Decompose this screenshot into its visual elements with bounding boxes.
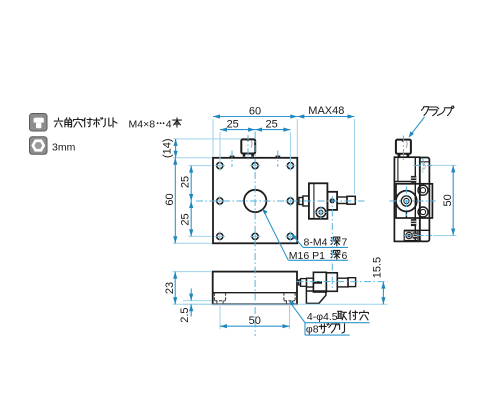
M4 hole front r0c1: [250, 160, 260, 170]
dimension 50 side: [442, 165, 455, 235]
side view M4 screw right top: [418, 185, 428, 195]
micrometer front: body screw: [315, 206, 328, 219]
top edge screw tab left: [230, 156, 235, 158]
leader 8-M4 depth7: [291, 234, 348, 249]
side view right column: [420, 158, 430, 242]
M4 hole front r2c1: [250, 231, 260, 241]
centerline micrometer lock: [331, 196, 333, 290]
svg-text:M16 P1: M16 P1: [289, 250, 325, 262]
svg-text:M4×8: M4×8: [129, 118, 156, 130]
micrometer front: spindle collar: [303, 196, 309, 206]
micrometer front: lock block: [327, 192, 337, 210]
svg-text:φ8: φ8: [306, 324, 319, 336]
dimension 23: [164, 272, 178, 305]
side view bottom notch and screw: [404, 230, 429, 240]
M4 hole front r1c2: [285, 196, 295, 206]
svg-text:15.5: 15.5: [372, 257, 384, 278]
dimension 50 bottom: [220, 315, 290, 328]
bottom micrometer shaft: [337, 278, 348, 287]
dimension 60 top: [213, 106, 297, 119]
leader M16 P1 depth6: [262, 209, 348, 262]
side view center pad: [396, 184, 432, 218]
bottom micrometer thimble: [326, 273, 337, 292]
bottom micrometer end knob: [348, 278, 356, 287]
svg-text:23: 23: [164, 282, 176, 294]
centerline side knob: [402, 136, 404, 162]
svg-text:4: 4: [166, 118, 172, 130]
bottom view base rect: [213, 272, 297, 305]
micrometer front: end knob: [347, 196, 355, 204]
bottom view step line: [213, 292, 297, 294]
extension lines 2.5 dim: [183, 301, 388, 305]
svg-text:3mm: 3mm: [52, 142, 76, 154]
svg-text:25: 25: [180, 176, 192, 188]
bottom micrometer collar: [307, 278, 314, 287]
dimension (14): [162, 138, 178, 158]
centerline vertical main axis: [254, 132, 256, 337]
dimension 25 top right: [255, 119, 290, 132]
svg-text:50: 50: [442, 194, 454, 206]
M4 hole front r0c2: [285, 160, 295, 170]
svg-text:60: 60: [249, 106, 261, 118]
svg-text:(14): (14): [162, 138, 174, 158]
side view main body: [394, 157, 419, 241]
clamp label katakana: [421, 106, 453, 116]
icon hex key: [30, 137, 48, 155]
dimension 15.5: [372, 257, 386, 304]
side view clamp screw top hatched: [411, 176, 416, 183]
clamp label leader: [409, 117, 425, 138]
top edge screw tab right: [276, 156, 281, 158]
extension lines 23 dim: [173, 272, 213, 305]
dimension 25 left upper: [180, 166, 194, 237]
bottom micrometer barrel: [313, 272, 326, 292]
extension lines 50 bottom: [220, 306, 290, 329]
clamp knob front: [241, 139, 255, 157]
centerline side top hole: [414, 158, 433, 173]
leader 4-phi4.5 mounting holes: [289, 300, 370, 336]
svg-text:25: 25: [265, 119, 277, 131]
centerline side bottom hole: [403, 235, 432, 237]
side view column top segment: [420, 161, 430, 163]
svg-text:7: 7: [342, 237, 348, 249]
side view inner vertical: [414, 157, 416, 241]
svg-text:25: 25: [227, 119, 239, 131]
centerline side boss vertical: [405, 187, 407, 217]
centerline top screw right: [277, 151, 279, 168]
dimension MAX48: [297, 105, 354, 118]
bottom micrometer bracket foot: [306, 287, 326, 304]
M4 hole front r0c0: [215, 160, 225, 170]
svg-text:4-φ4.5: 4-φ4.5: [307, 311, 338, 323]
centerline front knob: [247, 135, 249, 161]
centerline top screw left: [231, 151, 233, 168]
svg-text:2.5: 2.5: [179, 308, 191, 323]
dimension 60 left: [164, 158, 177, 244]
extension lines left dims: [173, 139, 241, 243]
bottom micrometer spindle: [299, 280, 301, 285]
hidden counterbore left: [214, 293, 225, 305]
legend label: hex socket bolt M4x8 x4: [54, 118, 181, 131]
svg-text:8-M4: 8-M4: [304, 237, 328, 249]
side view boss circles: [396, 191, 417, 218]
svg-text:25: 25: [180, 213, 192, 225]
M4 hole front r2c2: [285, 231, 295, 241]
icon hex-socket bolt: [30, 114, 48, 132]
side view clamp knob: [396, 139, 411, 157]
bottom micrometer spindle2: [301, 279, 307, 287]
svg-text:6: 6: [342, 250, 348, 262]
micrometer front: spindle tip: [299, 198, 303, 205]
centerline bottom micrometer axis: [297, 281, 388, 283]
M4 hole front r2c0: [215, 231, 225, 241]
extension lines 50 side: [432, 165, 457, 235]
side view inner wall left: [397, 157, 399, 181]
M4 hole front r1c0: [215, 196, 225, 206]
centerline horizontal front view: [196, 200, 365, 202]
hidden counterbore right: [284, 293, 295, 305]
dimension 25 top left: [220, 119, 290, 132]
side view clamp screw bottom hatched: [411, 219, 416, 226]
svg-text:MAX48: MAX48: [308, 105, 344, 117]
dimension 2.5: [179, 289, 193, 323]
side view M4 screw right bottom: [418, 207, 428, 217]
center bore circle M16: [244, 190, 266, 212]
micrometer front: shaft: [337, 197, 347, 204]
front plate body: [213, 158, 297, 244]
side view divider top: [394, 181, 415, 183]
centerline side view horizontal: [390, 200, 436, 202]
micrometer front: body block: [309, 183, 328, 219]
extension lines top dims: [213, 119, 355, 194]
svg-text:60: 60: [164, 193, 176, 205]
dimension 25 left lower: [180, 201, 194, 236]
legend label: 3mm: [52, 142, 76, 154]
